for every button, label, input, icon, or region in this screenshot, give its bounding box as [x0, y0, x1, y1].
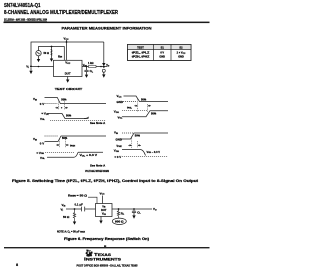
svg-text:Figure 5. Switching Time (t PZ: Figure 5. Switching Time (t PZL, t PLZ, …: [12, 179, 199, 183]
svg-text:GND: GND: [159, 56, 165, 59]
svg-text:50 Ω: 50 Ω: [63, 215, 70, 219]
svg-text:POST OFFICE BOX 655303 • DALLA: POST OFFICE BOX 655303 • DALLAS, TEXAS 7…: [77, 263, 138, 267]
svg-text:600 Ω: 600 Ω: [115, 221, 124, 224]
svg-text:6 V: 6 V: [160, 52, 164, 55]
svg-text:PARAMETER MEASUREMENT INFORMAT: PARAMETER MEASUREMENT INFORMATION: [62, 25, 152, 30]
svg-text:DUT: DUT: [101, 208, 107, 212]
svg-text:VOLTAGE WAVEFORMS: VOLTAGE WAVEFORMS: [85, 169, 109, 173]
svg-text:2 × VCC: 2 × VCC: [177, 52, 186, 55]
svg-text:TEST: TEST: [137, 46, 144, 50]
svg-text:GND: GND: [178, 56, 184, 59]
svg-text:INSTRUMENTS: INSTRUMENTS: [84, 257, 122, 262]
svg-text:50%: 50%: [62, 136, 68, 140]
svg-text:S2: S2: [179, 46, 183, 50]
svg-text:≈ 0 V: ≈ 0 V: [115, 155, 122, 159]
svg-text:See Note A: See Note A: [90, 163, 106, 167]
svg-text:50 Ω: 50 Ω: [44, 52, 49, 55]
svg-text:8: 8: [16, 263, 18, 267]
svg-text:50%: 50%: [66, 114, 72, 118]
svg-text:50%: 50%: [135, 134, 141, 138]
svg-text:8-CHANNEL ANALOG MULTIPLEXER/D: 8-CHANNEL ANALOG MULTIPLEXER/DEMULTIPLEX…: [4, 10, 118, 16]
svg-text:TEXAS: TEXAS: [94, 252, 112, 257]
svg-text:DUT: DUT: [65, 72, 71, 76]
svg-text:SN74LV4051A-Q1: SN74LV4051A-Q1: [4, 3, 41, 9]
svg-text:TEST CIRCUIT: TEST CIRCUIT: [55, 87, 83, 91]
svg-text:0.1 μF: 0.1 μF: [75, 202, 84, 206]
svg-text:tPZH, tPHZ: tPZH, tPHZ: [132, 56, 150, 59]
svg-text:1 kΩ: 1 kΩ: [88, 62, 93, 65]
svg-text:0 V: 0 V: [40, 102, 44, 106]
svg-text:GND: GND: [117, 100, 123, 104]
svg-text:tPZL, tPLZ: tPZL, tPLZ: [132, 52, 150, 55]
svg-text:See Note A: See Note A: [90, 121, 106, 125]
svg-text:50%: 50%: [61, 98, 67, 102]
svg-text:Figure 6. Frequency Response (: Figure 6. Frequency Response (Switch On): [64, 237, 149, 241]
svg-text:50%: 50%: [151, 111, 157, 115]
svg-text:GND: GND: [116, 138, 122, 142]
svg-text:0 V: 0 V: [40, 142, 44, 146]
svg-text:SCLS533A – MAY 2003 – REVISED: SCLS533A – MAY 2003 – REVISED APRIL 2004: [4, 17, 47, 21]
svg-text:50%: 50%: [141, 97, 147, 101]
svg-text:S1: S1: [161, 46, 165, 50]
svg-text:NOTE A: CL = 50 pF max: NOTE A: CL = 50 pF max: [57, 230, 85, 234]
